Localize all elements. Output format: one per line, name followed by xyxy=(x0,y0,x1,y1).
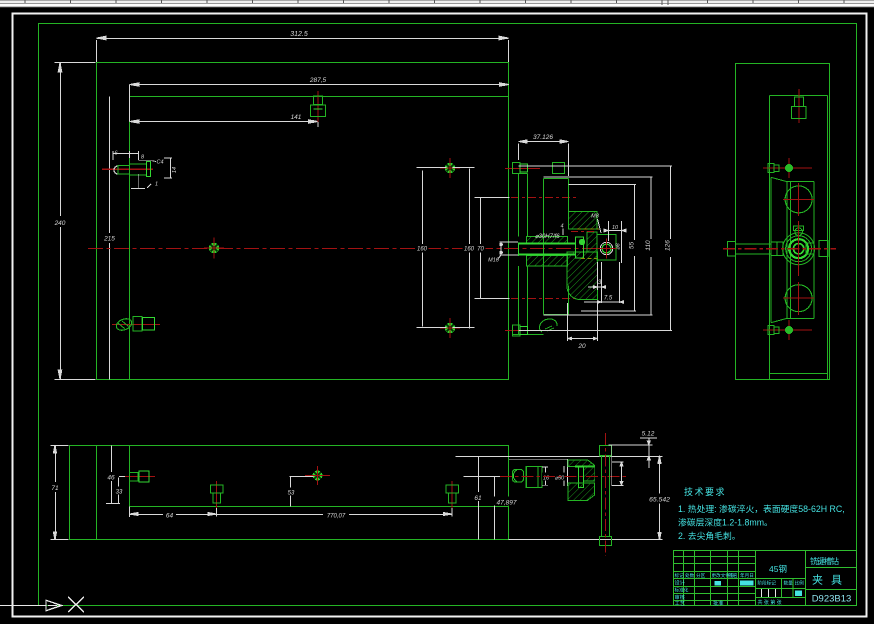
bushing hatched right middle xyxy=(584,467,595,481)
svg-text:技术要求: 技术要求 xyxy=(684,486,726,497)
bottom view plate outline xyxy=(70,446,509,540)
svg-text:M16: M16 xyxy=(488,258,500,264)
screw on top edge of plate xyxy=(311,91,326,122)
right small bracket dimension xyxy=(612,445,624,486)
svg-text:C4: C4 xyxy=(156,160,163,166)
support plate (tall) xyxy=(600,446,612,546)
UCS icon X marker xyxy=(68,597,84,612)
extension lines right of bottom view xyxy=(456,457,663,540)
dimension 4 xyxy=(562,229,564,236)
side view centerlines xyxy=(723,248,836,250)
hidden line (yellow) lower xyxy=(581,258,599,260)
svg-text:312.5: 312.5 xyxy=(290,31,308,38)
svg-text:阶段标记: 阶段标记 xyxy=(758,580,777,587)
svg-text:4: 4 xyxy=(560,224,563,230)
V-block lower hatched section with round corner xyxy=(567,252,598,300)
svg-text:65.542: 65.542 xyxy=(649,497,670,504)
svg-text:数量: 数量 xyxy=(784,580,794,587)
svg-text:处数: 处数 xyxy=(685,572,695,579)
svg-text:M8: M8 xyxy=(591,214,600,220)
bottom view vertical screw 2 xyxy=(446,481,459,508)
dimension 37.126 xyxy=(519,140,569,176)
svg-text:分区: 分区 xyxy=(696,572,706,579)
svg-text:240: 240 xyxy=(54,220,66,227)
side view outer plate xyxy=(736,64,830,380)
side view lower screw row xyxy=(763,320,812,340)
dimension 65.542 xyxy=(658,456,661,541)
dimension 20 xyxy=(568,303,598,341)
flange mounting screw bottom with washer xyxy=(505,319,557,336)
dimension 126 xyxy=(519,166,673,331)
white reference lines xyxy=(509,459,568,486)
svg-text:1: 1 xyxy=(155,182,158,188)
hatched boss below pin xyxy=(527,256,568,267)
M8 text leader xyxy=(598,219,602,233)
bottom view centerline segments xyxy=(305,475,330,477)
bushing bright edge xyxy=(575,466,595,468)
svg-text:14: 14 xyxy=(172,167,178,173)
side view top screw xyxy=(792,89,807,123)
set screw detail upper left xyxy=(102,162,153,177)
svg-text:46: 46 xyxy=(107,475,115,482)
svg-text:审核: 审核 xyxy=(675,593,685,601)
svg-text:共 张 第 张: 共 张 第 张 xyxy=(758,599,782,606)
svg-text:比例: 比例 xyxy=(795,580,805,587)
clamp centerline xyxy=(500,476,628,478)
svg-text:215: 215 xyxy=(103,236,115,243)
svg-text:渗碳层深度1.2-1.8mm。: 渗碳层深度1.2-1.8mm。 xyxy=(678,517,773,528)
UCS icon axis line xyxy=(0,600,62,610)
side view bracket outline xyxy=(771,177,814,322)
dimension 240 xyxy=(55,63,96,380)
dimension 16 bracket xyxy=(542,467,548,485)
dimension 46 xyxy=(111,446,113,504)
svg-text:铣键槽钻: 铣键槽钻 xyxy=(810,556,839,566)
svg-text:33: 33 xyxy=(116,490,123,496)
clamp nut bright xyxy=(579,466,584,488)
hidden line (yellow) upper xyxy=(577,228,599,230)
svg-text:61: 61 xyxy=(474,495,482,502)
clamp screw body xyxy=(526,466,542,487)
dimension 10 xyxy=(604,221,626,263)
toolbar tick marks xyxy=(25,0,844,5)
main plate outline top view xyxy=(97,63,509,380)
dimension 770,07 xyxy=(217,508,453,517)
svg-text:70: 70 xyxy=(477,247,484,253)
svg-text:⌀8: ⌀8 xyxy=(616,242,622,249)
title block signature bars xyxy=(740,581,754,586)
slotted screw detail lower left xyxy=(112,317,160,333)
bottom view side screw left xyxy=(125,471,155,482)
svg-text:126: 126 xyxy=(665,240,672,251)
toolbar strip remnant at top xyxy=(0,0,874,8)
dimension 53 to locating hole xyxy=(290,477,314,507)
title block small texts xyxy=(675,572,805,607)
title block grid xyxy=(674,551,857,606)
dimension 287.5 xyxy=(130,83,510,122)
locating pin (bright) xyxy=(519,244,576,255)
bracket body outline xyxy=(544,179,569,315)
svg-text:64: 64 xyxy=(166,513,174,520)
svg-text:⌀30H7/f6: ⌀30H7/f6 xyxy=(535,234,560,240)
dimension 3 xyxy=(588,262,606,303)
bushing hatched top xyxy=(568,460,595,467)
svg-text:71: 71 xyxy=(51,485,59,492)
side view lower bolt circle xyxy=(783,282,814,315)
dimension 61 xyxy=(478,457,480,540)
flange hole axis lower xyxy=(511,298,578,300)
V-block upper hatched section xyxy=(569,212,598,230)
M8 tapped hole block xyxy=(597,235,616,261)
svg-text:签名: 签名 xyxy=(729,572,738,579)
svg-text:53: 53 xyxy=(288,491,295,497)
dimension 312.5 xyxy=(97,36,509,62)
svg-text:7.5: 7.5 xyxy=(604,296,613,302)
bright dot hole xyxy=(579,239,585,245)
main horizontal centerline xyxy=(88,248,617,250)
side view pin shaft xyxy=(728,241,829,257)
clamp screw head xyxy=(513,470,524,483)
dimension 33 xyxy=(118,478,120,504)
dimension 160 right xyxy=(453,168,475,329)
V-block side hatched strip xyxy=(587,232,597,252)
svg-text:标准化: 标准化 xyxy=(675,587,689,594)
svg-text:45钢: 45钢 xyxy=(769,564,787,574)
side view upper bolt circle xyxy=(783,183,814,216)
svg-text:770,07: 770,07 xyxy=(327,514,346,520)
dimension 70 xyxy=(475,198,510,299)
svg-text:设计: 设计 xyxy=(675,579,685,587)
dimension 71 xyxy=(51,445,69,540)
dimension 47,897 xyxy=(494,477,496,540)
dimension 141 xyxy=(130,117,319,127)
svg-text:年月日: 年月日 xyxy=(740,572,754,579)
dimension 5.12 xyxy=(609,438,657,468)
dimension 110 xyxy=(544,177,653,315)
support plate centerline xyxy=(605,433,607,556)
svg-text:37.126: 37.126 xyxy=(533,134,553,141)
svg-text:141: 141 xyxy=(291,114,302,121)
bottom view vertical screw 1 xyxy=(211,481,224,508)
set screw small dimensions xyxy=(113,151,172,189)
clamp nut (bright) xyxy=(576,237,584,258)
svg-text:287,5: 287,5 xyxy=(309,77,327,84)
svg-text:1. 热处理: 渗碳淬火，表面硬度58-62H RC,: 1. 热处理: 渗碳淬火，表面硬度58-62H RC, xyxy=(678,503,845,514)
svg-text:标记: 标记 xyxy=(675,572,685,579)
red dash line in V-block xyxy=(571,231,595,233)
svg-text:110: 110 xyxy=(645,240,652,251)
flange hole axis upper xyxy=(511,197,578,199)
hatched boss above pin xyxy=(527,237,568,244)
bottom view locating hole circle xyxy=(308,466,328,485)
side view upper screw row xyxy=(763,158,812,178)
side view center pin boss circles xyxy=(783,226,815,265)
svg-text:47,897: 47,897 xyxy=(497,500,517,507)
svg-text:5.12: 5.12 xyxy=(642,431,655,438)
svg-text:10: 10 xyxy=(612,225,619,231)
bushing hatched bottom xyxy=(568,483,595,500)
svg-text:20: 20 xyxy=(577,343,586,350)
bolt hole circle lower right xyxy=(440,318,460,338)
dimension 215 xyxy=(109,97,111,380)
svg-text:批准: 批准 xyxy=(713,599,723,607)
flange mounting screw top xyxy=(505,163,565,174)
M16 thread dimension leader xyxy=(498,242,518,260)
dimension 7.5 xyxy=(584,262,624,303)
dimension dia50 xyxy=(563,466,565,486)
dimension 55 xyxy=(569,185,637,312)
dimension 64 xyxy=(130,508,217,517)
title block white cell dividers xyxy=(762,589,776,597)
svg-text:D923B13: D923B13 xyxy=(812,594,852,605)
svg-text:工艺: 工艺 xyxy=(675,600,685,607)
svg-text:2. 去尖角毛刺。: 2. 去尖角毛刺。 xyxy=(678,530,741,541)
svg-text:160: 160 xyxy=(464,247,475,253)
locating hole circle left xyxy=(204,238,224,259)
svg-text:55: 55 xyxy=(629,242,636,250)
svg-text:160: 160 xyxy=(417,247,428,253)
flange plate edges xyxy=(513,174,544,335)
bolt hole circle upper right xyxy=(440,158,460,178)
svg-text:夹具: 夹具 xyxy=(812,574,850,587)
dimension 160 left xyxy=(417,168,447,328)
